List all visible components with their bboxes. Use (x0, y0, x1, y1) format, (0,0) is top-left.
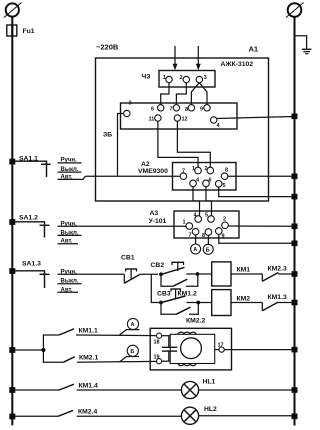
wire A2 pin4 to A3 pin4 (193, 187, 200, 216)
svg-text:СВ2: СВ2 (151, 262, 165, 269)
node A ref at motor (120, 318, 140, 335)
contact KM2.1 (43, 350, 156, 362)
node KM feed (41, 348, 45, 352)
switch SA1.1 (9, 156, 50, 178)
junction right bus motor (292, 347, 298, 353)
contact KM1.3 interlock (262, 294, 294, 311)
junction right bus row A (292, 271, 298, 277)
svg-text:Fu1: Fu1 (23, 28, 35, 35)
svg-text:A1: A1 (249, 45, 259, 54)
pin 18 (154, 333, 162, 345)
supply arrow 2 (196, 46, 201, 70)
svg-text:9: 9 (200, 107, 203, 113)
supply arrow 1 (173, 46, 178, 70)
svg-text:8: 8 (202, 233, 205, 239)
junction right bus pin8 (292, 174, 298, 180)
wire A3 pin9 to right bus (219, 234, 295, 243)
pin 4 of ZB (211, 117, 217, 123)
ground (295, 36, 312, 54)
svg-text:9: 9 (222, 234, 225, 240)
coil KM1 (200, 262, 263, 286)
svg-text:SA1.3: SA1.3 (22, 261, 41, 268)
device A1 box (96, 45, 269, 202)
contact KM1.4 (9, 382, 181, 393)
svg-text:АЖК-3102: АЖК-3102 (221, 61, 254, 68)
switch SA1.2 (9, 215, 49, 238)
button SB2 (151, 262, 200, 276)
junction right bus HL1 (292, 387, 298, 393)
wire ZB pin12 to A2 pin2 (177, 121, 210, 167)
svg-text:7: 7 (189, 233, 192, 239)
svg-text:17: 17 (218, 342, 224, 348)
contact KM2.2 self-hold (161, 303, 205, 324)
wire ZB pin3 down to auto net (118, 114, 124, 177)
svg-text:SA1.2: SA1.2 (19, 215, 38, 222)
junction left bus KM rows (9, 347, 15, 353)
svg-text:3: 3 (129, 101, 132, 107)
svg-text:ЗБ: ЗБ (103, 132, 112, 139)
block ChZ of A1 (142, 71, 216, 88)
wire A2 pin8 to right bus (228, 175, 295, 177)
svg-text:11: 11 (149, 117, 155, 123)
lamp HL1 (181, 379, 215, 399)
device A3 box (149, 210, 240, 238)
device A2 box (138, 161, 236, 190)
wire A3 pin7 to node A (195, 235, 197, 244)
wire bus to KM node (14, 349, 43, 351)
right supply terminal (286, 3, 304, 18)
junction right bus pin4 (292, 114, 298, 120)
svg-text:КМ2: КМ2 (237, 295, 251, 302)
fuse Fu1 (7, 25, 35, 36)
block ZB of A1 (103, 103, 237, 139)
wire ZB pin4 to right bus (217, 117, 295, 119)
svg-text:КМ1.1: КМ1.1 (79, 327, 98, 334)
pin 17 (215, 342, 225, 352)
svg-text:КМ2.2: КМ2.2 (186, 318, 205, 325)
junction right bus A3 pin9 (292, 241, 298, 247)
svg-text:~220В: ~220В (96, 43, 119, 52)
svg-text:КМ2.3: КМ2.3 (268, 265, 287, 272)
wire ChZ pin3 to ZB pin8 (191, 83, 199, 105)
svg-text:5: 5 (223, 183, 226, 189)
motor rotor (181, 338, 202, 359)
pin 5 of A2 (215, 181, 222, 188)
svg-text:А3: А3 (150, 210, 159, 217)
svg-text:А: А (193, 247, 197, 253)
junction right bus A3 pin2 (292, 224, 298, 230)
button SB1 (121, 255, 158, 284)
pin 19 (154, 355, 162, 364)
pin 9 of A3 (216, 228, 223, 235)
wire pin17 to right bus (224, 349, 294, 351)
svg-text:ЧЗ: ЧЗ (142, 74, 151, 81)
svg-text:3: 3 (204, 75, 207, 81)
node B ref at motor (120, 345, 140, 362)
svg-text:19: 19 (154, 355, 160, 361)
wire auto SA1.1 to A2 pin7 (85, 175, 180, 177)
wire ChZ pin3 to ZB pin9 (199, 83, 207, 105)
svg-text:7: 7 (170, 107, 173, 113)
switch SA1.3 (9, 261, 49, 289)
right bus wire (294, 17, 296, 426)
wire ChZ pin2 to ZB pin7 (176, 83, 186, 105)
node B ref under A3 (203, 244, 213, 254)
svg-text:Б: Б (206, 248, 210, 254)
svg-text:СВ3: СВ3 (157, 290, 171, 297)
svg-text:HL2: HL2 (204, 406, 217, 413)
wire ChZ pin1 to ZB pin6 (161, 83, 169, 105)
wire row A to row B drop (151, 274, 161, 302)
svg-text:12: 12 (182, 117, 188, 123)
svg-text:КМ2.4: КМ2.4 (78, 408, 97, 415)
svg-text:8: 8 (185, 107, 188, 113)
svg-text:СВ1: СВ1 (121, 255, 135, 262)
node A ref under A3 (191, 244, 201, 254)
svg-text:У-101: У-101 (149, 218, 167, 225)
wire HL1 to right bus (199, 389, 295, 391)
wire pin19 to winding (162, 360, 171, 362)
junction right bus pin5 (292, 194, 298, 200)
pin 12 of ZB (174, 115, 180, 121)
svg-text:HL1: HL1 (203, 379, 216, 386)
svg-text:КМ1: КМ1 (237, 266, 251, 273)
left supply terminal (4, 3, 22, 18)
motor winding box (170, 332, 215, 366)
junction right bus row B (292, 300, 298, 306)
junction right bus HL2 (292, 414, 298, 420)
contact KM1.1 (43, 327, 156, 350)
wire HL2 to right bus (199, 415, 295, 417)
svg-text:18: 18 (154, 340, 160, 346)
wire A3 pin2 to right bus (228, 225, 294, 227)
svg-text:А: А (131, 322, 135, 328)
svg-text:2: 2 (180, 75, 183, 81)
wire A2 pin6 to A3 pin5 (206, 187, 212, 216)
left bus wire (11, 17, 13, 426)
wire ZB pin11 to A2 pin1 (158, 121, 198, 167)
svg-text:КМ1.3: КМ1.3 (268, 294, 287, 301)
wire pin18 to winding (162, 335, 171, 337)
svg-text:КМ1.4: КМ1.4 (79, 382, 98, 389)
wire A3 pin8 to node B (207, 235, 209, 244)
coil KM2 (200, 290, 263, 316)
svg-text:КМ2.1: КМ2.1 (79, 354, 98, 361)
svg-text:1: 1 (183, 220, 186, 226)
svg-text:6: 6 (151, 107, 154, 113)
capacitor (162, 336, 177, 362)
contact KM1.2 self-hold (161, 275, 198, 298)
lamp HL2 (181, 406, 217, 425)
motor unit box (150, 328, 231, 370)
svg-text:VМЕ9300: VМЕ9300 (138, 168, 168, 175)
contact KM2.3 interlock (262, 265, 294, 281)
svg-text:Б: Б (130, 349, 134, 355)
wire A2 pin5 to right bus (219, 187, 295, 197)
contact KM2.4 (9, 408, 181, 419)
button SB3 (157, 289, 200, 305)
